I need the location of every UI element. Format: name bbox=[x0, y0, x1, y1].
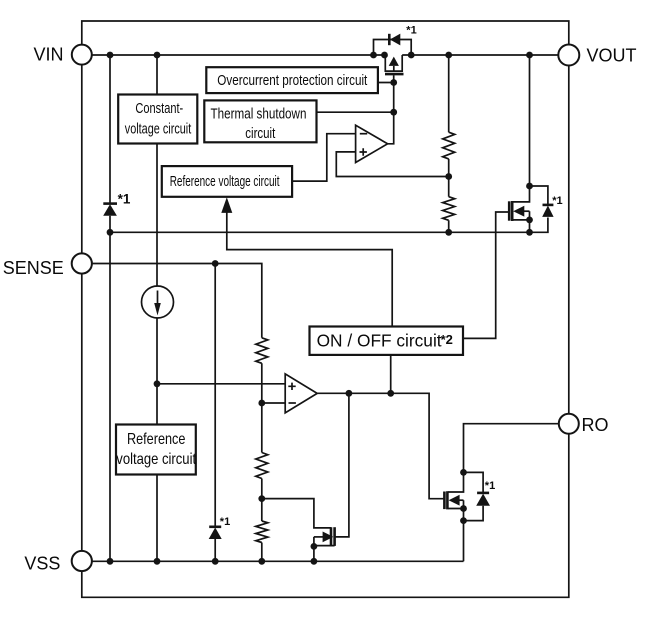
node M1 source bbox=[381, 52, 388, 59]
wire RO to M4 bbox=[464, 424, 559, 473]
block Thermal shutdown circuit box bbox=[204, 100, 316, 142]
wire current source to A2 plus node bbox=[156, 318, 158, 384]
transistor M4 gate bar bbox=[443, 492, 446, 510]
transistor M4 body arrow bbox=[449, 495, 464, 506]
wire A2 plus input bbox=[157, 383, 285, 385]
resistor R1 bbox=[443, 132, 455, 159]
resistor R2 bbox=[443, 197, 455, 221]
svg-text:Thermal shutdown: Thermal shutdown bbox=[211, 106, 307, 123]
node A2 output / M3 drain bbox=[346, 390, 353, 397]
wire thermal box to M1 gate net bbox=[317, 111, 394, 113]
wire constant-voltage box to current source bbox=[156, 144, 158, 287]
wire A2 output line bbox=[317, 393, 444, 498]
svg-text:ON / OFF circuit: ON / OFF circuit bbox=[317, 330, 442, 350]
wire R2 to node line bbox=[448, 220, 450, 232]
block Overcurrent protection circuit box bbox=[206, 67, 378, 93]
svg-text:VIN: VIN bbox=[33, 45, 63, 65]
current source CS1 circle bbox=[142, 286, 174, 318]
node VIN rail / reference branch bbox=[154, 52, 161, 59]
wire A1 non-inverting input to feedback tap bbox=[336, 152, 448, 177]
svg-text:*1: *1 bbox=[552, 195, 562, 207]
label A2 plus bbox=[288, 383, 295, 390]
transistor M1 gate plate bbox=[385, 73, 404, 76]
wire M3 source to VSS bbox=[314, 537, 335, 561]
wire M3 drain to A2 output bbox=[335, 393, 349, 537]
svg-text:*1: *1 bbox=[220, 516, 230, 528]
node VSS / reference column bbox=[154, 558, 161, 565]
wire VSS rail bbox=[92, 560, 464, 562]
svg-text:VOUT: VOUT bbox=[587, 45, 637, 65]
node VSS / M3 bbox=[311, 558, 318, 565]
wire overcurrent box to M1 gate net bbox=[378, 82, 394, 84]
pin VOUT bbox=[558, 45, 579, 66]
node M4 source bbox=[460, 505, 467, 512]
node M2 top bbox=[526, 183, 533, 190]
node rail / M2 branch bbox=[526, 52, 533, 59]
node M2 source bbox=[526, 217, 533, 224]
node SENSE / D6 branch bbox=[212, 260, 219, 267]
wire R1 to R2 bbox=[448, 159, 450, 197]
wire M2 gate to ON/OFF circuit bbox=[463, 212, 509, 338]
op-amp A2 (sense comparator) bbox=[285, 374, 317, 413]
pin VIN bbox=[72, 45, 92, 65]
wire reference box (bottom) to VSS bbox=[156, 475, 158, 562]
wire VIN branch down to D5 bbox=[109, 55, 111, 232]
svg-text:Constant-: Constant- bbox=[135, 100, 183, 117]
node M4 top / D4 anode bbox=[460, 469, 467, 476]
wire rail down to M2 bbox=[529, 55, 531, 186]
diode D4 symbol bbox=[476, 493, 490, 506]
transistor M4 taps and channel wire bbox=[448, 472, 463, 518]
diode D1 symbol bbox=[389, 34, 400, 46]
transistor M2 taps and channel wire bbox=[513, 186, 530, 232]
current source CS1 arrow bbox=[154, 291, 161, 316]
label A1 plus bbox=[360, 148, 367, 155]
block ON/OFF circuit box bbox=[310, 327, 464, 355]
svg-text:RO: RO bbox=[582, 415, 609, 435]
svg-text:Reference: Reference bbox=[127, 431, 186, 448]
wire reference feed line bbox=[227, 212, 392, 327]
wire R6 to VSS bbox=[261, 543, 263, 562]
node M2 bottom on sense net bbox=[526, 229, 533, 236]
label A2 minus bbox=[289, 402, 296, 404]
resistor R5 bbox=[256, 453, 268, 479]
node VIN rail / constant-voltage branch bbox=[107, 52, 114, 59]
wire M3 gate from divider bbox=[262, 499, 331, 528]
wire reference output to A1 inverting input bbox=[292, 134, 356, 181]
wire left column to VSS bbox=[109, 232, 111, 561]
diode D4 loop wire bbox=[464, 472, 484, 520]
block Reference voltage circuit box (bottom) bbox=[116, 425, 196, 475]
wire SENSE to divider top bbox=[92, 264, 262, 338]
pin RO bbox=[559, 414, 579, 434]
node VSS / R6 bbox=[258, 558, 265, 565]
svg-text:SENSE: SENSE bbox=[3, 258, 64, 278]
svg-text:*2: *2 bbox=[441, 332, 453, 347]
wire internal net y232 bbox=[110, 231, 530, 233]
svg-text:*1: *1 bbox=[485, 480, 495, 492]
transistor M3 channel bar bbox=[333, 527, 336, 546]
node M3 source / bulk tie bbox=[311, 543, 318, 550]
node A2 plus branch bbox=[154, 380, 161, 387]
node R2 bottom on sense net bbox=[445, 229, 452, 236]
resistor R4 bbox=[256, 338, 268, 364]
svg-text:Overcurrent protection circuit: Overcurrent protection circuit bbox=[217, 72, 368, 89]
diode D5 symbol bbox=[103, 204, 117, 216]
op-amp A1 (error amplifier) bbox=[356, 125, 388, 162]
wire R5 to M3 gate node bbox=[261, 479, 263, 522]
wire A2 minus input bbox=[262, 402, 285, 404]
diode D1 (M1 body diode) loop wire bbox=[374, 40, 412, 56]
node gate net / overcurrent bbox=[390, 79, 397, 86]
node gate net / thermal bbox=[390, 109, 397, 116]
block Constant-voltage circuit box bbox=[118, 95, 197, 144]
node D1 cathode / rail bbox=[408, 52, 415, 59]
pin SENSE bbox=[72, 253, 92, 273]
transistor M1 body arrow bbox=[389, 57, 399, 72]
svg-text:VSS: VSS bbox=[24, 554, 60, 574]
wire M4 source to VSS rail bbox=[463, 521, 465, 562]
node D1 anode bbox=[370, 52, 377, 59]
transistor M4 channel bar bbox=[446, 491, 449, 509]
node left column / net y232 bbox=[107, 229, 114, 236]
svg-text:*1: *1 bbox=[118, 192, 131, 207]
wire VIN rail to M1 source bbox=[92, 54, 385, 56]
diode D6 symbol bbox=[209, 527, 222, 539]
svg-text:Reference voltage circuit: Reference voltage circuit bbox=[170, 173, 280, 190]
node A2 minus branch bbox=[258, 400, 265, 407]
label A1 minus bbox=[360, 133, 367, 135]
wire M1 gate to error amp A1 output bbox=[388, 75, 394, 144]
wire ON/OFF box to A2 output bbox=[390, 355, 392, 393]
svg-text:*1: *1 bbox=[406, 25, 416, 37]
wire outer border frame bbox=[82, 21, 569, 597]
node A2 output / ON-OFF feed bbox=[387, 390, 394, 397]
node rail / R1 branch bbox=[445, 52, 452, 59]
wire R4 to A2 minus node bbox=[261, 363, 263, 452]
arrow into reference box (top) bbox=[221, 197, 232, 213]
node feedback tap bbox=[445, 173, 452, 180]
wire rail to R1 bbox=[448, 55, 450, 132]
resistor R6 bbox=[256, 521, 268, 543]
pin VSS bbox=[72, 551, 92, 571]
diode D2 (M2 body diode) loop wire bbox=[530, 186, 548, 232]
wire D6 branch down bbox=[214, 264, 216, 562]
transistor M2 gate bar bbox=[508, 201, 511, 220]
wire down to reference box (bottom) bbox=[156, 384, 158, 425]
svg-text:circuit: circuit bbox=[245, 125, 276, 142]
transistor M3 gate bar bbox=[330, 527, 333, 546]
svg-text:voltage circuit: voltage circuit bbox=[116, 451, 196, 468]
wire VIN to constant-voltage box bbox=[156, 55, 158, 95]
transistor M1 (pass PMOS) channel and taps bbox=[385, 55, 402, 71]
wire M1 drain rail to VOUT bbox=[402, 54, 558, 56]
transistor M2 body arrow bbox=[513, 206, 529, 217]
node D4 return bbox=[460, 517, 467, 524]
transistor M2 channel bar bbox=[511, 201, 514, 221]
node M3 gate branch bbox=[258, 495, 265, 502]
block Reference voltage circuit box (top) bbox=[162, 166, 292, 197]
node VSS / left column bbox=[107, 558, 114, 565]
diode D2 symbol bbox=[542, 205, 553, 217]
svg-text:voltage circuit: voltage circuit bbox=[125, 120, 192, 137]
node VSS / D6 bbox=[212, 558, 219, 565]
transistor M3 body arrow bbox=[314, 532, 334, 543]
